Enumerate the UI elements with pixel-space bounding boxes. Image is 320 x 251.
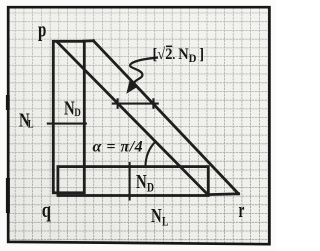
svg-text:N: N <box>64 96 75 119</box>
overbar of sqrt 2 <box>166 45 172 47</box>
squiggle leader arrow <box>130 58 158 85</box>
arrowhead of leader <box>126 80 138 94</box>
svg-text:D: D <box>147 181 154 195</box>
inner diagonal line (hypotenuse inner) <box>58 42 209 195</box>
bottom bar q-r <box>58 167 208 196</box>
top edge extension to outer diagonal <box>84 39 94 42</box>
angle arc for alpha <box>145 141 156 167</box>
frame border darker stretch lower-left <box>6 178 10 213</box>
svg-text:L: L <box>162 215 169 229</box>
svg-text:[√2. ND ]: [√2. ND ] <box>153 45 205 65</box>
label N_D top <box>64 96 81 119</box>
frame border <box>8 7 269 244</box>
N_D height dimension line on bottom bar <box>129 162 131 201</box>
right tick of band dimension <box>152 98 154 109</box>
N_D width dimension line on vertical bar <box>47 123 87 125</box>
svg-text:D: D <box>74 107 81 120</box>
svg-text:p: p <box>38 18 46 43</box>
vertical bar p-q <box>53 41 84 193</box>
svg-text:r: r <box>239 198 245 222</box>
svg-text:N: N <box>151 204 162 227</box>
label p <box>38 18 46 43</box>
svg-text:α = π/4: α = π/4 <box>93 139 144 156</box>
svg-text:N: N <box>136 170 147 193</box>
sqrt2.N_D dimension line across hypotenuse band <box>112 103 159 105</box>
label r <box>239 198 245 222</box>
svg-text:L: L <box>28 119 34 132</box>
label q <box>42 199 51 223</box>
label N_L left <box>19 108 34 131</box>
frame border darker stretch upper-left <box>6 95 10 110</box>
bottom edge extension to r <box>208 192 239 196</box>
label N_D bottom <box>136 170 154 195</box>
outer diagonal line (hypotenuse outer) <box>94 41 239 194</box>
label [sqrt2 . N_D] <box>153 45 205 65</box>
svg-text:q: q <box>42 199 51 223</box>
label N_L bottom <box>151 204 169 229</box>
left tick of band dimension <box>117 98 119 109</box>
